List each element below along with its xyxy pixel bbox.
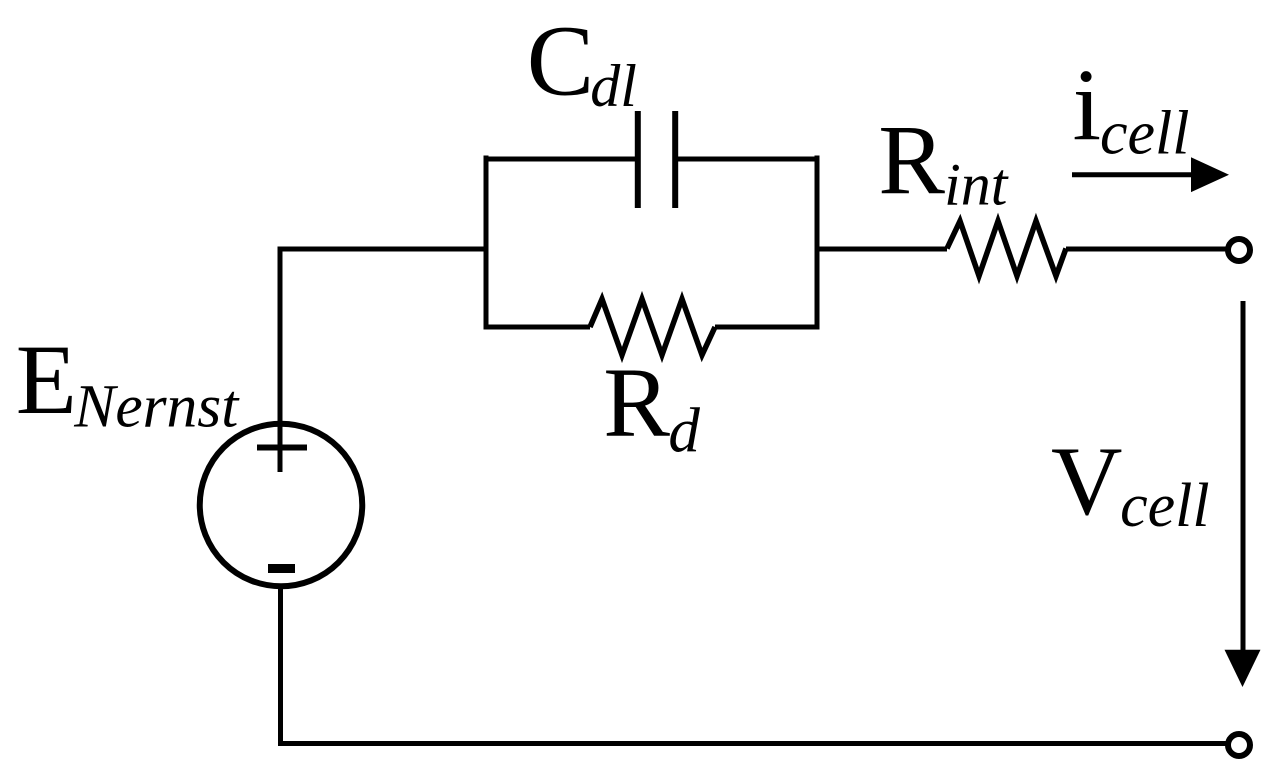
svg-text:int: int bbox=[944, 152, 1009, 218]
svg-text:d: d bbox=[668, 396, 700, 466]
parallel box right vertical bbox=[815, 156, 820, 330]
resistor R_int zigzag bbox=[947, 221, 1066, 276]
resistor R_d zigzag bbox=[590, 299, 715, 355]
top output terminal bbox=[1228, 239, 1250, 261]
svg-text:cell: cell bbox=[1120, 472, 1210, 540]
parallel box top wire left segment bbox=[484, 157, 636, 162]
parallel box top wire right segment bbox=[678, 157, 820, 162]
parallel box bottom wire right segment bbox=[715, 325, 820, 330]
i_cell arrow line bbox=[1072, 172, 1196, 177]
svg-text:E: E bbox=[16, 324, 77, 435]
minus sign bbox=[268, 564, 295, 573]
svg-text:cell: cell bbox=[1100, 99, 1190, 167]
svg-text:i: i bbox=[1073, 49, 1102, 163]
svg-text:dl: dl bbox=[590, 53, 637, 119]
parallel box left vertical bbox=[484, 156, 489, 330]
svg-text:R: R bbox=[878, 104, 945, 215]
voltage source E_Nernst circle bbox=[200, 424, 363, 587]
plus sign horizontal bar bbox=[257, 445, 307, 451]
capacitor C_dl left plate bbox=[635, 111, 641, 208]
wire middle from box to R_int bbox=[817, 247, 947, 252]
wire top-left horizontal bbox=[278, 247, 487, 252]
i_cell arrowhead bbox=[1191, 157, 1229, 192]
svg-text:R: R bbox=[603, 347, 670, 458]
wire left vertical down to source bbox=[278, 247, 283, 473]
V_cell arrowhead bbox=[1225, 650, 1261, 687]
bottom output terminal bbox=[1228, 734, 1250, 756]
svg-text:C: C bbox=[527, 5, 594, 117]
svg-text:Nernst: Nernst bbox=[73, 373, 240, 441]
wire from source bottom to bottom-left corner bbox=[281, 589, 1227, 744]
parallel box bottom wire left segment bbox=[484, 325, 591, 330]
wire from R_int to top terminal bbox=[1066, 247, 1226, 252]
V_cell arrow line bbox=[1241, 301, 1246, 655]
capacitor C_dl right plate bbox=[672, 111, 678, 208]
svg-text:V: V bbox=[1051, 427, 1123, 536]
